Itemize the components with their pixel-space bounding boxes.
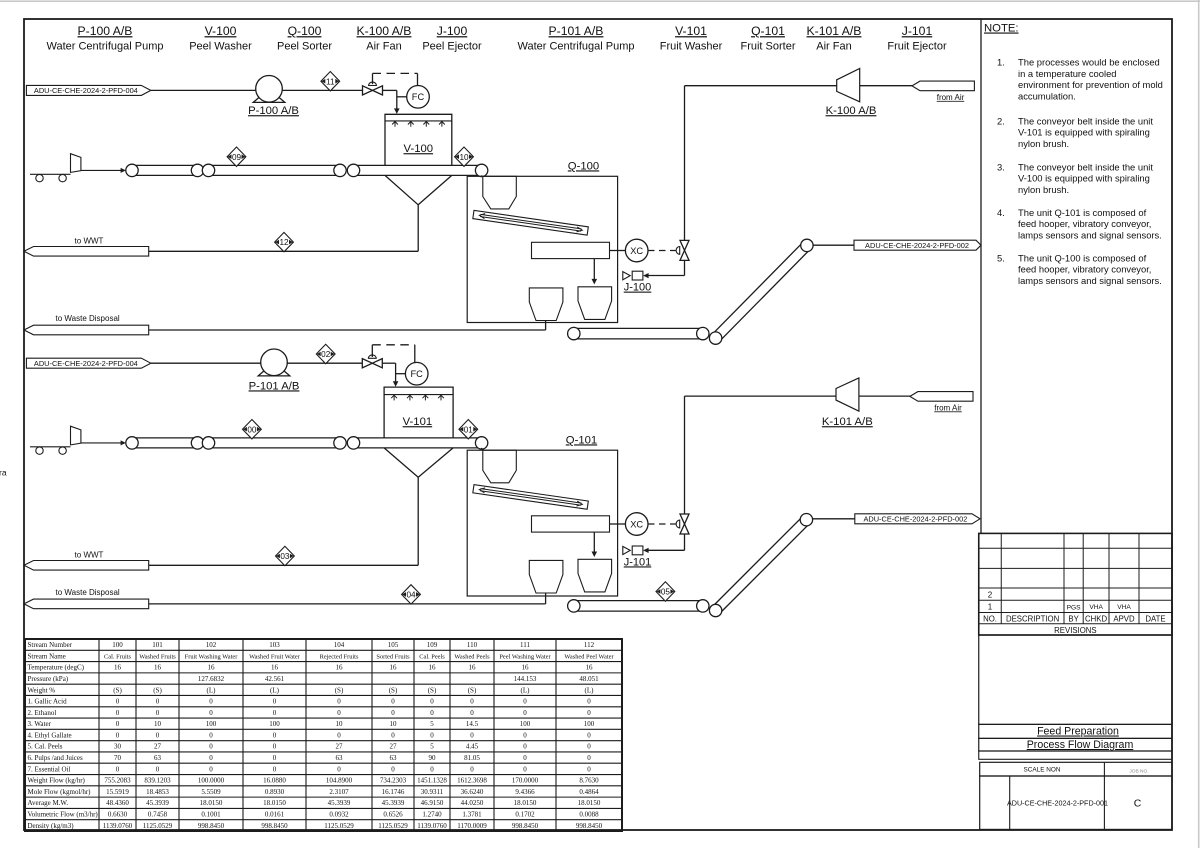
svg-text:to Waste Disposal: to Waste Disposal — [56, 314, 120, 323]
svg-text:144.153: 144.153 — [514, 675, 537, 683]
svg-text:JOB NO.: JOB NO. — [1129, 768, 1148, 774]
svg-text:27: 27 — [390, 743, 398, 751]
svg-text:100.0000: 100.0000 — [198, 777, 225, 785]
svg-text:1451.1328: 1451.1328 — [417, 777, 447, 785]
svg-text:to WWT: to WWT — [75, 237, 104, 246]
svg-text:0.0161: 0.0161 — [265, 811, 285, 819]
svg-text:0: 0 — [337, 765, 341, 773]
svg-text:1: 1 — [988, 603, 993, 612]
svg-text:105: 105 — [388, 641, 399, 649]
wire: from Air flag to fan K-101 — [859, 395, 910, 397]
svg-text:110: 110 — [467, 641, 478, 649]
svg-text:Volumetric Flow (m3/hr): Volumetric Flow (m3/hr) — [28, 811, 99, 819]
flat discharge conveyor (train 2) — [568, 600, 709, 612]
svg-text:30: 30 — [114, 743, 122, 751]
svg-text:4. Ethyl Gallate: 4. Ethyl Gallate — [28, 731, 72, 739]
svg-text:Sorted Fruits: Sorted Fruits — [376, 653, 410, 660]
svg-text:APVD: APVD — [1113, 615, 1135, 624]
svg-text:15.5919: 15.5919 — [106, 788, 129, 796]
svg-text:2.3107: 2.3107 — [329, 788, 349, 796]
svg-text:V-101: V-101 — [675, 24, 707, 38]
stream diamond 112 — [275, 232, 294, 251]
svg-text:45.3939: 45.3939 — [328, 799, 351, 807]
svg-text:0.4864: 0.4864 — [579, 788, 599, 796]
instrument signal: XC to air valve (train 1) — [648, 250, 676, 252]
svg-text:12: 12 — [279, 238, 289, 247]
svg-text:(L): (L) — [270, 686, 280, 694]
svg-text:10: 10 — [459, 153, 469, 162]
svg-text:00: 00 — [247, 425, 257, 434]
svg-text:0: 0 — [430, 709, 434, 717]
svg-text:The conveyor belt inside the u: The conveyor belt inside the unit — [1018, 161, 1153, 172]
svg-text:1125.0529: 1125.0529 — [143, 822, 173, 830]
svg-text:nylon brush.: nylon brush. — [1018, 138, 1069, 149]
svg-text:ADU-CE-CHE-2024-2-PFD-001: ADU-CE-CHE-2024-2-PFD-001 — [1007, 799, 1108, 808]
svg-text:0: 0 — [470, 765, 474, 773]
air control valve (train 2) — [676, 514, 689, 534]
svg-text:0: 0 — [116, 709, 120, 717]
svg-text:Q-100: Q-100 — [568, 160, 599, 172]
svg-text:V-100: V-100 — [404, 143, 434, 155]
svg-text:Fruit Sorter: Fruit Sorter — [740, 40, 795, 52]
svg-text:from Air: from Air — [934, 403, 962, 412]
equipment header P-100 A/B — [47, 24, 164, 52]
svg-text:5: 5 — [430, 743, 434, 751]
svg-text:V-100 is equipped with spirali: V-100 is equipped with spiraling — [1018, 173, 1150, 184]
svg-text:18.0150: 18.0150 — [200, 799, 223, 807]
svg-text:46.9150: 46.9150 — [421, 799, 444, 807]
svg-text:feed hooper, vibratory conveyo: feed hooper, vibratory conveyor, — [1018, 264, 1151, 275]
svg-text:104.8900: 104.8900 — [326, 777, 353, 785]
arrow into sorted hopper (train 1) — [592, 259, 598, 285]
lamp/sensor unit of Q-100 — [532, 242, 610, 258]
svg-text:REVISIONS: REVISIONS — [1054, 626, 1096, 635]
off-page arrow to WWT (train 2) — [24, 551, 149, 571]
svg-text:16: 16 — [336, 664, 344, 672]
svg-text:DESCRIPTION: DESCRIPTION — [1006, 615, 1059, 624]
svg-text:16: 16 — [114, 664, 122, 672]
svg-text:K-100 A/B: K-100 A/B — [826, 105, 877, 117]
svg-text:16: 16 — [586, 664, 594, 672]
instrument signal: valve to FC (train 2) — [372, 345, 415, 363]
svg-text:J-101: J-101 — [624, 556, 652, 568]
svg-text:734.2303: 734.2303 — [380, 777, 407, 785]
wire: lamp unit to XC (train 2) — [610, 523, 626, 525]
svg-text:100: 100 — [206, 720, 217, 728]
svg-text:0: 0 — [337, 698, 341, 706]
svg-text:2: 2 — [988, 590, 993, 599]
svg-text:0.0932: 0.0932 — [329, 811, 349, 819]
control valve FCV-1 (train 1) — [363, 82, 383, 95]
svg-text:P-101 A/B: P-101 A/B — [249, 380, 300, 392]
stream diamond 105 — [656, 582, 675, 601]
svg-text:998.8450: 998.8450 — [512, 822, 539, 830]
svg-text:16: 16 — [469, 664, 477, 672]
stream diamond 110 — [455, 147, 474, 166]
svg-text:accumulation.: accumulation. — [1018, 90, 1076, 101]
air fan K-101 A/B — [822, 378, 873, 428]
svg-text:BY: BY — [1068, 615, 1079, 624]
controller XC (train 2) — [625, 513, 648, 536]
flag from Air (train 1) — [912, 81, 974, 102]
svg-text:2. Ethanol: 2. Ethanol — [28, 709, 57, 717]
note 5. — [997, 252, 1162, 286]
svg-text:(S): (S) — [389, 686, 398, 694]
svg-text:16: 16 — [522, 664, 530, 672]
svg-text:7. Essential Oil: 7. Essential Oil — [28, 765, 71, 773]
svg-text:0: 0 — [116, 698, 120, 706]
off-page arrow to WWT (train 1) — [24, 237, 149, 257]
wire: conveyor drop into Q-101 hopper — [481, 448, 483, 450]
svg-text:100: 100 — [112, 641, 123, 649]
svg-text:VHA: VHA — [1117, 604, 1131, 611]
svg-text:14.5: 14.5 — [466, 720, 479, 728]
wire: valve to V-101 spray header — [382, 363, 398, 387]
equipment header P-101 A/B — [518, 24, 635, 52]
svg-text:0: 0 — [523, 709, 527, 717]
off-page arrow to Waste Disposal (train 2) — [24, 588, 149, 609]
svg-text:Air Fan: Air Fan — [816, 40, 851, 52]
svg-text:Q-100: Q-100 — [288, 24, 322, 38]
svg-text:Fruit Washing Water: Fruit Washing Water — [185, 653, 239, 660]
svg-text:C: C — [1134, 798, 1142, 810]
svg-text:0.7458: 0.7458 — [148, 811, 168, 819]
svg-text:0: 0 — [209, 709, 213, 717]
svg-text:The processes would be enclose: The processes would be enclosed — [1018, 57, 1160, 68]
svg-text:Average M.W.: Average M.W. — [28, 799, 69, 807]
svg-text:1.: 1. — [997, 57, 1005, 68]
svg-text:05: 05 — [661, 588, 671, 597]
svg-text:0: 0 — [523, 731, 527, 739]
off-page arrow to Waste Disposal (train 1) — [24, 314, 149, 335]
svg-text:Air Fan: Air Fan — [366, 40, 401, 52]
svg-text:0: 0 — [156, 698, 160, 706]
svg-text:8.7630: 8.7630 — [579, 777, 599, 785]
equipment header J-100 — [422, 24, 482, 52]
equipment header V-101 — [660, 24, 723, 52]
svg-text:755.2083: 755.2083 — [104, 777, 131, 785]
svg-text:P-100 A/B: P-100 A/B — [78, 24, 133, 38]
svg-text:1170.0009: 1170.0009 — [457, 822, 487, 830]
inclined conveyor to PFD-002 (train 2) — [709, 514, 812, 617]
svg-text:109: 109 — [427, 641, 438, 649]
svg-text:FC: FC — [410, 369, 423, 379]
svg-text:Cal. Peels: Cal. Peels — [419, 653, 445, 660]
svg-text:0.6526: 0.6526 — [383, 811, 403, 819]
svg-text:V-101: V-101 — [403, 416, 433, 428]
arrow into sorted hopper (train 2) — [592, 532, 598, 557]
svg-text:to Waste Disposal: to Waste Disposal — [56, 588, 120, 597]
svg-text:PGS: PGS — [1067, 604, 1082, 611]
drain funnel under V-100 — [385, 175, 452, 251]
svg-text:Rejected Fruits: Rejected Fruits — [320, 653, 359, 660]
control valve FCV-2 (train 2) — [362, 355, 382, 368]
svg-text:0.6630: 0.6630 — [108, 811, 128, 819]
svg-text:16: 16 — [154, 664, 162, 672]
svg-text:DATE: DATE — [1145, 615, 1165, 624]
wire: Q-100 reject hopper to waste disposal — [149, 321, 546, 331]
wire: water feed to pump P-101 — [151, 362, 261, 364]
wire: inclined conveyor to flag PFD-002 (train 1) — [813, 244, 854, 246]
svg-text:0: 0 — [156, 765, 160, 773]
svg-text:0: 0 — [156, 709, 160, 717]
svg-text:998.8450: 998.8450 — [261, 822, 288, 830]
svg-text:90: 90 — [429, 754, 437, 762]
svg-text:18.4853: 18.4853 — [146, 788, 169, 796]
svg-text:0.0088: 0.0088 — [579, 811, 599, 819]
svg-text:Washed Fruits: Washed Fruits — [139, 653, 176, 660]
svg-text:ADU-CE-CHE-2024-2-PFD-002: ADU-CE-CHE-2024-2-PFD-002 — [863, 514, 967, 523]
delivery truck (train 2 feed) — [30, 426, 126, 454]
svg-text:10: 10 — [154, 720, 162, 728]
unit Q-101 fruit sorter enclosure — [467, 434, 617, 596]
svg-text:V-101 is equipped with spirali: V-101 is equipped with spiraling — [1018, 127, 1150, 138]
svg-text:0: 0 — [337, 709, 341, 717]
svg-text:VHA: VHA — [1089, 604, 1103, 611]
stream diamond 101 — [459, 420, 478, 439]
svg-text:NO.: NO. — [983, 615, 997, 624]
svg-text:0: 0 — [523, 754, 527, 762]
svg-text:Water Centrifugal Pump: Water Centrifugal Pump — [518, 40, 635, 52]
svg-text:0: 0 — [391, 731, 395, 739]
svg-text:44.0250: 44.0250 — [461, 799, 484, 807]
svg-text:127.6832: 127.6832 — [198, 675, 225, 683]
svg-text:XC: XC — [630, 246, 643, 256]
svg-text:0: 0 — [470, 731, 474, 739]
flag ADU-CE-CHE-2024-2-PFD-004 (train 2 water feed) — [26, 358, 150, 368]
svg-text:170.0000: 170.0000 — [512, 777, 539, 785]
wire: pump P-100 discharge — [282, 89, 362, 91]
svg-text:NOTE:: NOTE: — [984, 23, 1019, 35]
svg-text:998.8450: 998.8450 — [576, 822, 603, 830]
svg-text:(S): (S) — [428, 686, 437, 694]
svg-text:J-101: J-101 — [902, 24, 933, 38]
svg-text:1.3781: 1.3781 — [462, 811, 482, 819]
svg-text:101: 101 — [152, 641, 163, 649]
delivery truck (train 1 feed) — [30, 154, 126, 182]
svg-text:(L): (L) — [521, 686, 531, 694]
svg-text:0: 0 — [523, 743, 527, 751]
svg-text:1125.0529: 1125.0529 — [378, 822, 408, 830]
svg-text:ADU-CE-CHE-2024-2-PFD-004: ADU-CE-CHE-2024-2-PFD-004 — [34, 359, 138, 368]
svg-text:Stream Number: Stream Number — [28, 641, 73, 649]
vibratory conveyor of Q-101 — [473, 485, 589, 510]
svg-text:100: 100 — [584, 720, 595, 728]
wire: pump P-101 discharge — [287, 362, 362, 364]
svg-text:1.2740: 1.2740 — [422, 811, 442, 819]
sorted collection hopper of Q-100 — [578, 287, 612, 320]
feed hopper of Q-101 — [483, 450, 517, 483]
flag ADU-CE-CHE-2024-2-PFD-004 (train 1 water feed) — [26, 85, 150, 95]
svg-text:0: 0 — [209, 765, 213, 773]
svg-text:feed hooper, vibratory conveyo: feed hooper, vibratory conveyor, — [1018, 218, 1151, 229]
wire: lamp unit to XC (train 1) — [610, 250, 626, 252]
svg-text:0: 0 — [273, 731, 277, 739]
svg-text:16: 16 — [390, 664, 398, 672]
instrument signal: XC to air valve (train 2) — [648, 523, 676, 525]
svg-text:0: 0 — [273, 754, 277, 762]
svg-text:The conveyor belt inside the u: The conveyor belt inside the unit — [1018, 115, 1153, 126]
fruit ejector J-101 — [623, 546, 651, 568]
stream diamond 109 — [227, 147, 246, 166]
svg-text:0: 0 — [116, 765, 120, 773]
svg-text:0: 0 — [209, 754, 213, 762]
wire: air valve to fruit ejector J-101 — [648, 534, 684, 550]
svg-text:lamps sensors and signal senso: lamps sensors and signal sensors. — [1018, 275, 1162, 286]
air fan K-100 A/B — [826, 69, 877, 118]
svg-text:10: 10 — [390, 720, 398, 728]
svg-text:0: 0 — [587, 698, 591, 706]
svg-text:70: 70 — [114, 754, 122, 762]
svg-text:(L): (L) — [585, 686, 595, 694]
svg-text:1. Gallic Acid: 1. Gallic Acid — [28, 698, 68, 706]
svg-text:Peel Ejector: Peel Ejector — [422, 40, 482, 52]
svg-text:02: 02 — [321, 350, 331, 359]
wire: air line from fan K-101 to valve — [685, 396, 837, 514]
note 3. — [997, 161, 1153, 195]
svg-text:4.45: 4.45 — [466, 743, 479, 751]
svg-text:J-100: J-100 — [437, 24, 468, 38]
drain funnel under V-101 — [384, 448, 453, 565]
svg-text:0: 0 — [337, 731, 341, 739]
svg-text:0: 0 — [273, 698, 277, 706]
svg-text:to WWT: to WWT — [75, 551, 104, 560]
svg-text:0: 0 — [587, 765, 591, 773]
svg-text:5.5509: 5.5509 — [201, 788, 221, 796]
conveyor belt C4 (feed, train 2) — [126, 437, 204, 449]
svg-text:K-101 A/B: K-101 A/B — [807, 24, 862, 38]
svg-text:0: 0 — [587, 743, 591, 751]
svg-text:09: 09 — [232, 153, 242, 162]
reject collection hopper of Q-101 — [529, 560, 563, 593]
svg-text:J-100: J-100 — [624, 282, 652, 294]
svg-text:SCALE NON: SCALE NON — [1024, 766, 1061, 773]
svg-text:1139.0760: 1139.0760 — [417, 822, 447, 830]
svg-text:Density (kg/m3): Density (kg/m3) — [28, 822, 75, 830]
wire: Q-101 reject hopper to waste disposal — [149, 593, 546, 604]
svg-text:in a temperature cooled: in a temperature cooled — [1018, 68, 1117, 79]
svg-text:0: 0 — [273, 765, 277, 773]
svg-text:P-101 A/B: P-101 A/B — [549, 24, 604, 38]
svg-text:Washed Fruit Water: Washed Fruit Water — [249, 653, 301, 660]
title block — [979, 635, 1172, 829]
svg-text:18.0150: 18.0150 — [578, 799, 601, 807]
svg-text:Feed Preparation: Feed Preparation — [1037, 726, 1119, 738]
svg-text:839.1203: 839.1203 — [144, 777, 171, 785]
svg-text:0: 0 — [391, 709, 395, 717]
svg-text:45.3939: 45.3939 — [382, 799, 405, 807]
svg-text:V-100: V-100 — [205, 24, 237, 38]
svg-text:42.561: 42.561 — [265, 675, 285, 683]
svg-text:Water Centrifugal Pump: Water Centrifugal Pump — [47, 40, 164, 52]
svg-text:Mole Flow (kgmol/hr): Mole Flow (kgmol/hr) — [28, 788, 92, 796]
equipment header Q-100 — [277, 24, 332, 52]
conveyor belt C6 under V-101 — [347, 437, 488, 449]
svg-text:The unit Q-101 is composed of: The unit Q-101 is composed of — [1018, 207, 1147, 218]
svg-text:5.: 5. — [997, 252, 1005, 263]
revisions table — [979, 533, 1172, 635]
svg-text:16: 16 — [208, 664, 216, 672]
equipment header K-101 A/B — [807, 24, 862, 52]
pump P-100 A/B — [248, 76, 299, 118]
svg-text:9.4366: 9.4366 — [515, 788, 535, 796]
svg-text:36.6240: 36.6240 — [461, 788, 484, 796]
svg-text:0: 0 — [470, 709, 474, 717]
svg-text:nylon brush.: nylon brush. — [1018, 184, 1069, 195]
svg-text:100: 100 — [520, 720, 531, 728]
svg-text:K-100 A/B: K-100 A/B — [357, 24, 412, 38]
svg-text:Temperature (degC): Temperature (degC) — [28, 664, 85, 672]
svg-text:0: 0 — [209, 743, 213, 751]
svg-text:0: 0 — [116, 720, 120, 728]
svg-text:102: 102 — [206, 641, 217, 649]
svg-text:2.: 2. — [997, 115, 1005, 126]
svg-text:environment for prevention of: environment for prevention of mold — [1018, 79, 1163, 90]
svg-text:Weight Flow (kg/hr): Weight Flow (kg/hr) — [28, 777, 86, 785]
svg-text:0: 0 — [430, 765, 434, 773]
svg-text:0: 0 — [116, 731, 120, 739]
svg-text:(S): (S) — [153, 686, 162, 694]
svg-text:5: 5 — [430, 720, 434, 728]
equipment header J-101 — [887, 24, 947, 52]
wire: valve to V-100 spray header — [383, 90, 400, 114]
flow controller FC (train 2) — [396, 362, 428, 385]
svg-text:Weight %: Weight % — [28, 686, 56, 694]
wire: V-100 drain to WWT — [149, 250, 419, 252]
svg-text:6. Pulps /and Juices: 6. Pulps /and Juices — [28, 754, 83, 762]
svg-text:0: 0 — [209, 698, 213, 706]
stream diamond 104 — [402, 585, 421, 604]
peel ejector J-100 — [623, 271, 651, 293]
svg-text:0: 0 — [156, 731, 160, 739]
svg-text:Washed Peel Water: Washed Peel Water — [564, 653, 614, 660]
flat discharge conveyor (train 1) — [568, 327, 709, 339]
svg-text:ADU-CE-CHE-2024-2-PFD-004: ADU-CE-CHE-2024-2-PFD-004 — [34, 86, 138, 95]
svg-text:Peel Washing Water: Peel Washing Water — [499, 653, 551, 660]
svg-text:Peel Sorter: Peel Sorter — [277, 40, 332, 52]
note 4. — [997, 207, 1162, 241]
svg-text:0.1702: 0.1702 — [515, 811, 535, 819]
svg-text:45.3939: 45.3939 — [146, 799, 169, 807]
stream summary table — [25, 639, 622, 831]
svg-text:(S): (S) — [468, 686, 477, 694]
flag from Air (train 2) — [910, 392, 973, 413]
svg-text:48.4360: 48.4360 — [106, 799, 129, 807]
svg-text:FC: FC — [412, 92, 425, 102]
svg-text:0: 0 — [209, 731, 213, 739]
controller XC (train 1) — [625, 239, 648, 262]
svg-text:0: 0 — [523, 765, 527, 773]
svg-text:Process Flow Diagram: Process Flow Diagram — [1027, 739, 1134, 751]
wire: conveyor drop into Q-100 hopper — [481, 175, 483, 177]
flag ADU-CE-CHE-2024-2-PFD-002 (train 1 washed peels) — [854, 240, 981, 250]
wire: air line from fan K-100 to valve — [685, 86, 837, 241]
svg-text:16.1746: 16.1746 — [382, 788, 405, 796]
svg-text:0.1001: 0.1001 — [201, 811, 221, 819]
svg-text:0: 0 — [273, 743, 277, 751]
svg-text:Fruit Washer: Fruit Washer — [660, 40, 723, 52]
air control valve (train 1) — [676, 240, 689, 260]
svg-text:(L): (L) — [207, 686, 217, 694]
svg-text:998.8450: 998.8450 — [198, 822, 225, 830]
wire: water feed to pump P-100 — [151, 89, 256, 91]
svg-text:03: 03 — [280, 552, 290, 561]
svg-text:0: 0 — [273, 709, 277, 717]
svg-text:(S): (S) — [335, 686, 344, 694]
svg-text:63: 63 — [336, 754, 344, 762]
svg-text:18.0150: 18.0150 — [514, 799, 537, 807]
sorted collection hopper of Q-101 — [578, 559, 612, 592]
